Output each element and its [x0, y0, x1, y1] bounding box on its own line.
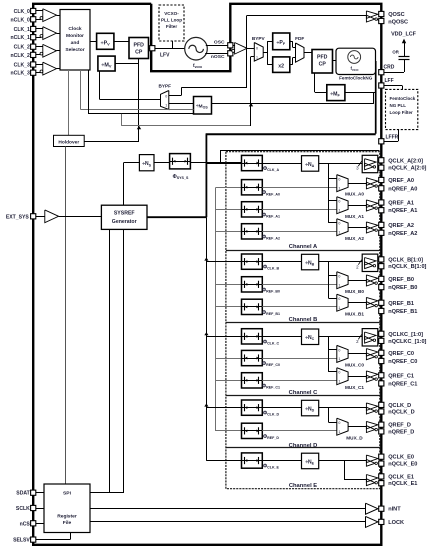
- svg-text:CLK_1: CLK_1: [14, 27, 30, 33]
- svg-text:nQCLK_E0: nQCLK_E0: [388, 462, 417, 468]
- svg-text:MUX_B1: MUX_B1: [345, 311, 364, 316]
- svg-text:0: 0: [338, 371, 340, 375]
- svg-text:nINT: nINT: [388, 507, 401, 513]
- svg-text:PFD: PFD: [317, 55, 328, 61]
- svg-text:1: 1: [165, 104, 167, 108]
- svg-text:SPI: SPI: [63, 491, 72, 497]
- svg-text:nCLK_1: nCLK_1: [11, 35, 30, 41]
- svg-text:1: 1: [338, 357, 340, 361]
- svg-text:MUX_A1: MUX_A1: [345, 214, 364, 219]
- svg-text:nQREF_C1: nQREF_C1: [388, 381, 417, 387]
- svg-text:Selector: Selector: [65, 47, 84, 53]
- svg-text:EXT_SYS: EXT_SYS: [6, 214, 30, 220]
- svg-text:FDF: FDF: [295, 36, 304, 41]
- svg-text:QOSC: QOSC: [388, 12, 404, 18]
- svg-text:0: 0: [256, 46, 258, 50]
- svg-text:nCLK_0: nCLK_0: [11, 17, 30, 23]
- svg-text:QREF_A2: QREF_A2: [388, 223, 414, 229]
- svg-text:0: 0: [338, 200, 340, 204]
- svg-text:File: File: [63, 520, 72, 526]
- svg-text:MUX_C0: MUX_C0: [345, 363, 364, 368]
- svg-text:CLK_0: CLK_0: [14, 9, 30, 15]
- svg-text:1: 1: [256, 56, 258, 60]
- svg-text:QREF_D: QREF_D: [388, 423, 411, 429]
- svg-text:1: 1: [338, 230, 340, 234]
- svg-text:MUX_D: MUX_D: [346, 435, 363, 440]
- svg-text:1: 1: [338, 430, 340, 434]
- svg-text:1: 1: [338, 208, 340, 212]
- svg-text:CLK_2: CLK_2: [14, 45, 30, 51]
- svg-text:0: 0: [338, 222, 340, 226]
- svg-text:0: 0: [338, 275, 340, 279]
- svg-text:Holdover: Holdover: [58, 139, 79, 145]
- svg-text:VDD_LCF: VDD_LCF: [391, 32, 417, 38]
- svg-text:MUX_A0: MUX_A0: [345, 192, 364, 197]
- svg-text:0: 0: [338, 421, 340, 425]
- svg-text:LFF: LFF: [385, 78, 394, 84]
- svg-text:SDAT: SDAT: [16, 491, 30, 497]
- svg-text:Channel C: Channel C: [289, 390, 318, 396]
- svg-text:LFFR: LFFR: [386, 135, 399, 141]
- svg-text:nQREF_C0: nQREF_C0: [388, 359, 417, 365]
- svg-text:Clock: Clock: [68, 26, 82, 32]
- svg-text:QCLK_D: QCLK_D: [388, 403, 411, 409]
- svg-text:Generator: Generator: [112, 219, 137, 225]
- svg-text:PFD: PFD: [134, 43, 145, 49]
- svg-text:QCLKC_[1:0]: QCLKC_[1:0]: [388, 332, 423, 338]
- svg-text:nQCLKC_[1:0]: nQCLKC_[1:0]: [388, 339, 426, 345]
- svg-text:nQOSC: nQOSC: [388, 19, 408, 25]
- svg-text:nQCLK_D: nQCLK_D: [388, 410, 414, 416]
- svg-text:Filter: Filter: [166, 24, 177, 29]
- svg-text:CP: CP: [135, 50, 143, 56]
- svg-text:0: 0: [338, 348, 340, 352]
- svg-text:QCLK_E1: QCLK_E1: [388, 474, 414, 480]
- svg-text:PLL Loop: PLL Loop: [161, 18, 182, 23]
- svg-text:Loop Filter: Loop Filter: [390, 110, 413, 115]
- svg-text:QCLK_B[1:0]: QCLK_B[1:0]: [388, 257, 423, 263]
- svg-text:MUX_A2: MUX_A2: [345, 236, 364, 241]
- svg-text:Channel E: Channel E: [289, 483, 317, 489]
- svg-text:Channel B: Channel B: [289, 317, 318, 323]
- svg-text:NG PLL: NG PLL: [390, 103, 407, 108]
- svg-text:nQREF_D: nQREF_D: [388, 429, 414, 435]
- svg-text:VCXO-: VCXO-: [164, 11, 179, 16]
- svg-text:nQREF_A1: nQREF_A1: [388, 208, 417, 214]
- svg-text:Monitor: Monitor: [66, 33, 84, 39]
- svg-text:QREF_B0: QREF_B0: [388, 277, 414, 283]
- svg-text:nCS: nCS: [20, 521, 31, 527]
- svg-text:LOCK: LOCK: [388, 520, 404, 526]
- svg-text:SCLK: SCLK: [16, 506, 30, 512]
- svg-text:CP: CP: [319, 62, 327, 68]
- svg-text:0: 0: [165, 94, 167, 98]
- svg-text:FemtoClockNG: FemtoClockNG: [339, 75, 373, 80]
- svg-text:QREF_C1: QREF_C1: [388, 373, 414, 379]
- svg-text:1: 1: [338, 379, 340, 383]
- svg-text:Channel D: Channel D: [289, 443, 318, 449]
- svg-text:LFV: LFV: [160, 53, 170, 59]
- svg-text:SYSREF: SYSREF: [114, 211, 135, 217]
- svg-text:1: 1: [338, 283, 340, 287]
- svg-text:nCLK_2: nCLK_2: [11, 53, 30, 59]
- svg-text:QCLK_A[2:0]: QCLK_A[2:0]: [388, 158, 423, 164]
- svg-text:nQCLK_A[2:0]: nQCLK_A[2:0]: [388, 166, 426, 172]
- svg-text:MUX_B0: MUX_B0: [345, 289, 364, 294]
- svg-text:QREF_B1: QREF_B1: [388, 301, 414, 307]
- svg-text:Register: Register: [57, 514, 77, 520]
- svg-text:0: 0: [338, 297, 340, 301]
- svg-text:nQREF_A2: nQREF_A2: [388, 231, 417, 237]
- svg-text:QREF_A1: QREF_A1: [388, 201, 414, 207]
- svg-text:nOSC: nOSC: [211, 54, 225, 60]
- svg-text:nQREF_B0: nQREF_B0: [388, 285, 417, 291]
- svg-text:x2: x2: [278, 63, 284, 69]
- svg-text:1: 1: [338, 306, 340, 310]
- svg-text:CRD: CRD: [384, 64, 395, 70]
- svg-text:QCLK_E0: QCLK_E0: [388, 455, 414, 461]
- svg-text:MUX_C1: MUX_C1: [345, 385, 364, 390]
- svg-text:QREF_C0: QREF_C0: [388, 351, 414, 357]
- svg-text:nQREF_A0: nQREF_A0: [388, 186, 417, 192]
- svg-text:OSC: OSC: [214, 39, 225, 45]
- svg-text:nCLK_3: nCLK_3: [11, 71, 30, 77]
- svg-text:÷PV: ÷PV: [101, 40, 111, 46]
- svg-text:BYPV: BYPV: [252, 36, 266, 41]
- svg-text:nQREF_B1: nQREF_B1: [388, 309, 417, 315]
- svg-text:FemtoClock: FemtoClock: [390, 96, 416, 101]
- svg-text:OR: OR: [392, 50, 399, 55]
- svg-text:1: 1: [338, 186, 340, 190]
- svg-text:nQCLK_B[1:0]: nQCLK_B[1:0]: [388, 264, 426, 270]
- svg-text:QREF_A0: QREF_A0: [388, 178, 414, 184]
- svg-text:and: and: [71, 40, 80, 46]
- svg-text:BYPF: BYPF: [158, 84, 171, 89]
- svg-text:0: 0: [338, 178, 340, 182]
- svg-text:÷MV: ÷MV: [101, 63, 111, 69]
- svg-text:nQCLK_E1: nQCLK_E1: [388, 481, 417, 487]
- svg-text:SELSV: SELSV: [13, 538, 30, 544]
- svg-text:CLK_3: CLK_3: [14, 63, 30, 69]
- svg-text:Channel A: Channel A: [289, 244, 318, 250]
